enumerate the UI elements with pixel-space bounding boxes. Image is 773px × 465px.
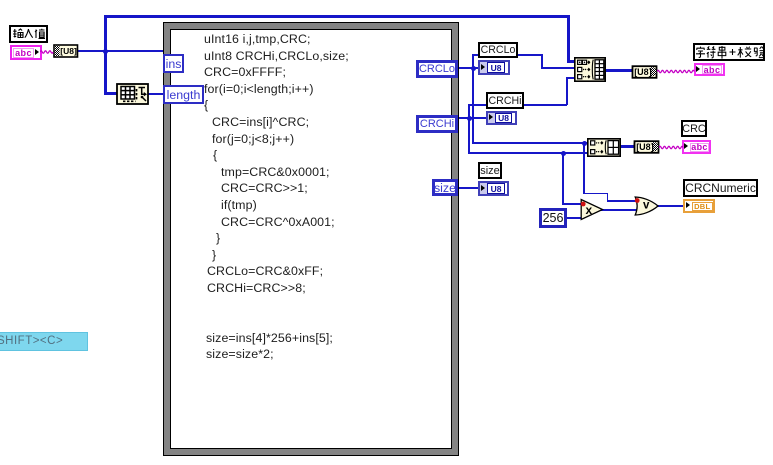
wire build-array1 output to bytearray-to-string (605, 69, 633, 72)
label CRC (681, 120, 707, 137)
wire drop corner into build-array1 input1 (567, 60, 575, 63)
constant 256 (539, 208, 567, 228)
wire string-to-bytearray output to ins (77, 50, 163, 52)
indicator DBL CRCNumeric (683, 199, 715, 213)
wire array-size to length (148, 93, 163, 95)
label CRCHi (486, 92, 524, 109)
wire multiply output to OR bottom input (601, 209, 641, 211)
node build array 1 (3 inputs) (574, 57, 606, 82)
wire string squiggle to abc string+check (657, 67, 695, 76)
terminal size (432, 179, 458, 196)
formula node C code text (204, 31, 349, 363)
wire rail drop to build-array1 (567, 15, 570, 63)
node multiply (580, 198, 605, 221)
wire CRCLo to build-array2 input1 (472, 142, 588, 144)
node array size (116, 83, 149, 105)
wire string squiggle to abc CRC (659, 143, 683, 152)
label 字符串+校验 (string+check) (693, 43, 765, 61)
tooltip SHIFT><C> (0, 332, 88, 352)
node junction build2-in1 (582, 141, 587, 146)
wire into OR top input (607, 200, 638, 202)
node byte-array-to-string [U8] bottom (633, 140, 661, 154)
node string-to-byte-array [U8] (53, 44, 79, 58)
wire CRCLo branch down at 542 (541, 54, 543, 68)
node junction trunk (103, 49, 108, 54)
wire u8-array vertical trunk (104, 15, 107, 95)
node junction CRCLo (471, 66, 476, 71)
node build array 2 (2 inputs) (587, 138, 621, 157)
svg-text:v: v (643, 200, 650, 212)
svg-text:[U8]: [U8] (636, 142, 654, 152)
wire CRCHi terminal to U8 indicator (458, 117, 486, 119)
wire step right at y193 (583, 193, 608, 195)
wire size terminal to U8 indicator (458, 187, 478, 189)
svg-text:[U8]: [U8] (634, 67, 652, 77)
wire CRCLo up-branch (472, 55, 474, 68)
terminal length (163, 85, 204, 104)
wire into build-array1 input3 (566, 77, 575, 79)
node OR (634, 195, 661, 217)
formula node frame (163, 22, 459, 456)
wire branch from 584,143 down to OR (583, 142, 585, 194)
terminal CRCHi (416, 115, 458, 133)
label 输入值 (input value) (9, 25, 48, 43)
wire CRCLo down trunk x473 (472, 67, 474, 144)
wire CRCHi to build-array1 input3: vertical up from junction (468, 104, 470, 118)
wire step down at x607 (607, 193, 609, 202)
label size (478, 162, 502, 179)
svg-text:[U8]: [U8] (60, 46, 77, 56)
node junction build2-in2 (561, 151, 566, 156)
control abc input (string control) (10, 45, 42, 60)
wire branch from 563,153 down to multiply (562, 152, 564, 204)
terminal CRCLo (416, 60, 458, 78)
wire CRCHi route up at 567 (566, 77, 568, 105)
wire u8-array top rail (104, 15, 570, 18)
wire into build-array1 input2 (541, 67, 575, 69)
wire CRCHi to build-array2 input2 (468, 152, 588, 154)
label CRCLo (478, 42, 518, 58)
svg-text:x: x (586, 203, 593, 217)
node byte-array-to-string [U8] top (631, 65, 659, 79)
wire OR output to DBL indicator (657, 205, 683, 207)
label CRCNumeric (683, 179, 758, 197)
wire CRCHi down trunk x469 (468, 117, 470, 154)
indicator abc CRC (682, 140, 711, 154)
indicator U8 CRCHi (486, 111, 517, 125)
indicator U8 size (478, 181, 509, 196)
indicator U8 CRCLo (478, 60, 510, 75)
wire string squiggle control to node (40, 47, 55, 56)
wire 256 to multiply bottom input (566, 217, 582, 219)
wire into multiply top input (562, 203, 582, 205)
wire CRCLo to build-array1 input2 horizontal (behind label) (472, 54, 542, 56)
terminal ins (163, 54, 184, 73)
wire CRCLo terminal to U8 indicator (458, 67, 478, 69)
wire CRCHi route behind label (468, 104, 567, 106)
wire trunk to array-size stub (104, 92, 118, 95)
node junction CRCHi (467, 116, 472, 121)
indicator abc string+check (694, 63, 725, 76)
wire build-array2 output to bytearray-to-string (620, 145, 635, 148)
